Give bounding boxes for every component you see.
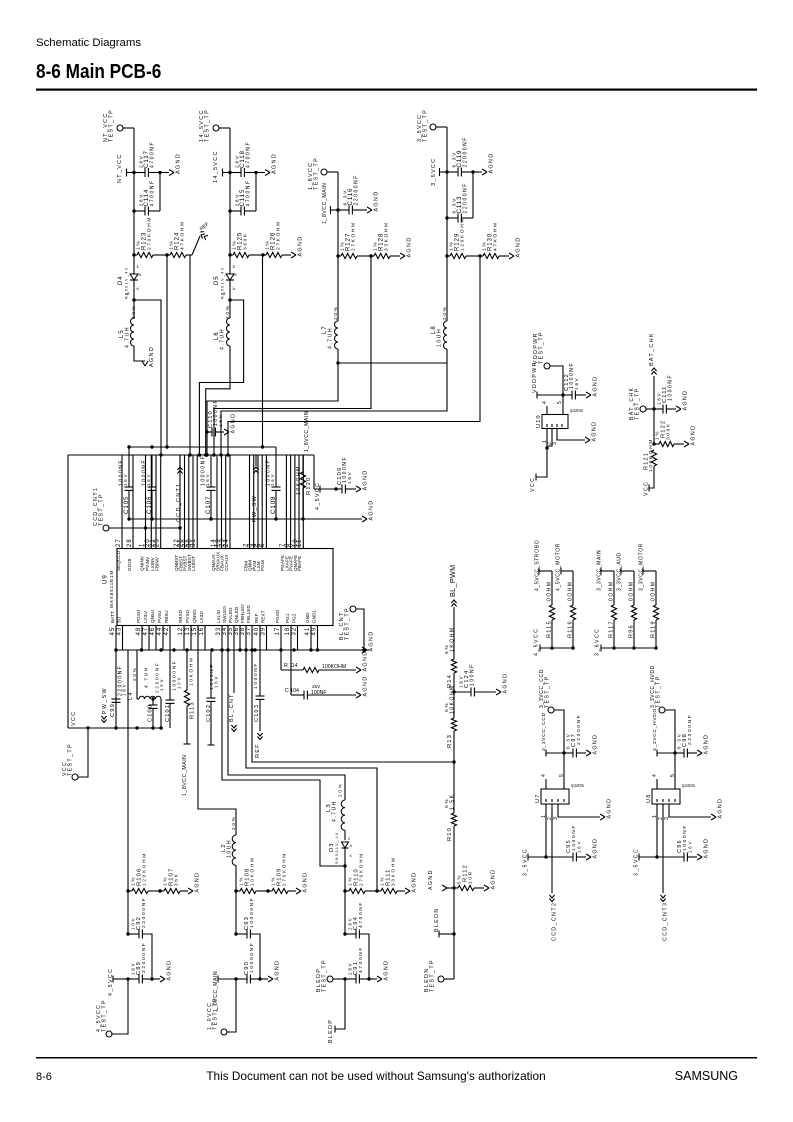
svg-text:BL_PWM: BL_PWM — [448, 565, 457, 597]
svg-text:22000NF: 22000NF — [141, 942, 147, 973]
svg-text:AGND: AGND — [194, 872, 200, 893]
svg-text:16V: 16V — [270, 473, 275, 486]
svg-text:1_8VCC_MAIN: 1_8VCC_MAIN — [322, 183, 328, 225]
svg-text:28V: 28V — [348, 917, 353, 930]
svg-text:10000NF: 10000NF — [249, 897, 255, 928]
svg-text:AGND: AGND — [428, 869, 434, 890]
svg-text:AGND: AGND — [362, 470, 368, 491]
svg-text:RBSD: RBSD — [178, 609, 183, 623]
svg-text:BAT_CHK: BAT_CHK — [649, 332, 655, 366]
svg-text:120KOHM: 120KOHM — [460, 217, 466, 251]
svg-text:AGND: AGND — [175, 153, 181, 174]
svg-text:TEST_TP: TEST_TP — [344, 607, 350, 640]
svg-text:R10: R10 — [447, 827, 453, 841]
svg-text:4.7UH: 4.7UH — [124, 326, 130, 348]
svg-text:D4: D4 — [118, 275, 124, 285]
svg-text:32: 32 — [291, 627, 297, 636]
svg-text:1%: 1% — [380, 876, 385, 886]
svg-text:PVSD: PVSD — [185, 610, 190, 623]
svg-text:TEST_TP: TEST_TP — [204, 109, 210, 142]
svg-text:20%: 20% — [231, 815, 236, 830]
svg-text:TEST_TP: TEST_TP — [655, 675, 661, 708]
svg-text:22000NF: 22000NF — [576, 714, 582, 745]
svg-text:22000NF: 22000NF — [462, 136, 468, 167]
svg-text:41: 41 — [305, 627, 311, 636]
svg-text:BLEDP: BLEDP — [328, 1019, 334, 1043]
svg-text:10UH: 10UH — [226, 839, 232, 858]
svg-text:TEST_TP: TEST_TP — [634, 387, 640, 420]
svg-text:270KOHM: 270KOHM — [359, 852, 364, 886]
svg-text:1%: 1% — [655, 430, 660, 440]
svg-text:AGND: AGND — [591, 421, 597, 442]
svg-text:4_5VCC: 4_5VCC — [533, 628, 539, 656]
svg-text:3_3VCC_MAIN: 3_3VCC_MAIN — [596, 550, 602, 591]
svg-text:300K: 300K — [666, 422, 672, 440]
svg-text:16V: 16V — [131, 962, 136, 975]
svg-text:360K: 360K — [243, 232, 249, 250]
svg-text:4700NF: 4700NF — [245, 141, 251, 168]
svg-text:AGND: AGND — [682, 390, 688, 411]
svg-text:1_8VCC_MAIN: 1_8VCC_MAIN — [304, 411, 310, 452]
svg-text:GND1: GND1 — [311, 609, 316, 623]
svg-text:AGND: AGND — [411, 872, 417, 893]
svg-text:16V: 16V — [347, 471, 352, 484]
svg-text:TEST_TP: TEST_TP — [422, 109, 428, 142]
svg-text:27: 27 — [116, 538, 122, 547]
svg-text:AGND: AGND — [362, 651, 368, 672]
svg-text:QNLED: QNLED — [234, 606, 239, 623]
svg-text:R112: R112 — [463, 864, 469, 882]
svg-text:AGND: AGND — [302, 872, 308, 893]
svg-text:AGND: AGND — [271, 153, 277, 174]
svg-text:REXT: REXT — [260, 610, 265, 623]
svg-text:22000NF: 22000NF — [462, 182, 468, 213]
svg-text:0OHM: 0OHM — [567, 580, 573, 601]
svg-text:11: 11 — [297, 539, 303, 547]
svg-text:5: 5 — [557, 400, 563, 404]
svg-text:24: 24 — [224, 538, 230, 547]
svg-text:AGND: AGND — [368, 500, 374, 521]
svg-text:16V: 16V — [688, 840, 693, 853]
svg-text:TEST_TP: TEST_TP — [98, 493, 104, 526]
svg-text:AGND: AGND — [502, 673, 508, 694]
svg-text:TEST_TP: TEST_TP — [538, 331, 544, 364]
svg-text:1_8VCC_MAIN: 1_8VCC_MAIN — [182, 755, 188, 797]
svg-text:C103: C103 — [254, 704, 260, 722]
svg-text:R127: R127 — [346, 233, 352, 251]
svg-text:PV5U: PV5U — [157, 611, 162, 623]
svg-text:PG1: PG1 — [285, 613, 290, 623]
svg-text:AGND: AGND — [383, 960, 389, 981]
svg-text:37: 37 — [246, 627, 252, 636]
svg-text:3: 3 — [552, 441, 558, 445]
svg-text:U10: U10 — [536, 414, 542, 428]
svg-text:C99: C99 — [110, 703, 116, 717]
svg-text:16: 16 — [199, 627, 205, 636]
svg-text:10KOHM: 10KOHM — [250, 856, 255, 886]
svg-text:3_5VCC: 3_5VCC — [633, 848, 639, 876]
svg-text:4700NF: 4700NF — [245, 179, 251, 206]
svg-text:3_3VCC_CCD: 3_3VCC_CCD — [541, 712, 547, 751]
svg-text:AGND: AGND — [717, 798, 723, 819]
svg-text:AGND: AGND — [149, 346, 155, 367]
svg-text:16V: 16V — [122, 683, 127, 696]
svg-text:AGND: AGND — [230, 413, 236, 434]
svg-text:VCC: VCC — [643, 481, 649, 496]
svg-text:AGND: AGND — [490, 869, 496, 890]
svg-text:3_6VCC: 3_6VCC — [594, 628, 600, 656]
svg-text:NT_VCC: NT_VCC — [117, 153, 123, 183]
svg-text:4_5VCC: 4_5VCC — [315, 482, 321, 510]
svg-text:10KOHM: 10KOHM — [450, 684, 456, 714]
svg-text:100KOHM: 100KOHM — [322, 664, 346, 670]
svg-text:22000NF: 22000NF — [687, 714, 693, 745]
svg-text:44: 44 — [157, 627, 163, 636]
svg-text:22000NF: 22000NF — [353, 174, 359, 205]
svg-text:100KOHM: 100KOHM — [648, 438, 654, 472]
svg-text:FBAFE: FBAFE — [297, 556, 302, 571]
svg-text:QNSD: QNSD — [192, 609, 197, 623]
svg-text:20%: 20% — [442, 305, 448, 320]
svg-text:CCD_CNT1: CCD_CNT1 — [176, 482, 182, 522]
svg-text:rp103n: rp103n — [682, 783, 696, 788]
svg-text:6.3V: 6.3V — [677, 732, 682, 749]
svg-text:16V: 16V — [123, 473, 128, 486]
svg-text:C89: C89 — [136, 961, 142, 975]
svg-text:10V: 10V — [159, 678, 164, 691]
svg-text:PGM: PGM — [260, 560, 265, 571]
svg-text:R128: R128 — [379, 233, 385, 251]
svg-text:5%: 5% — [457, 874, 462, 884]
svg-text:1%: 1% — [131, 876, 136, 886]
svg-text:4: 4 — [541, 773, 547, 777]
svg-text:25V: 25V — [312, 684, 321, 689]
svg-text:47KOHM: 47KOHM — [180, 220, 186, 250]
svg-text:CCD_CNT3: CCD_CNT3 — [662, 902, 668, 941]
svg-text:BL_CNT: BL_CNT — [229, 693, 235, 722]
svg-text:TEST_TP: TEST_TP — [321, 959, 327, 992]
svg-text:47: 47 — [143, 627, 149, 636]
svg-text:SWLED: SWLED — [222, 606, 227, 623]
svg-text:This Document can not be used: This Document can not be used without Sa… — [206, 1069, 545, 1083]
svg-text:10V: 10V — [131, 917, 136, 930]
svg-text:PGSU: PGSU — [136, 610, 141, 623]
svg-text:GND: GND — [305, 612, 310, 623]
svg-text:C97: C97 — [571, 733, 577, 747]
svg-text:LX3U: LX3U — [143, 611, 148, 623]
svg-text:SAMSUNG: SAMSUNG — [675, 1069, 738, 1083]
svg-text:LX3D: LX3D — [199, 611, 204, 623]
svg-text:0OHM: 0OHM — [628, 580, 634, 601]
svg-text:FBINV: FBINV — [155, 556, 160, 571]
svg-text:CCAUX: CCAUX — [224, 554, 229, 571]
svg-text:AGND: AGND — [297, 236, 303, 257]
svg-text:3_3VCC_MOTOR: 3_3VCC_MOTOR — [638, 543, 644, 591]
svg-text:AGND: AGND — [515, 237, 521, 258]
svg-text:270KOHM: 270KOHM — [282, 852, 287, 886]
svg-text:49: 49 — [311, 627, 317, 636]
svg-text:C94: C94 — [353, 916, 359, 930]
svg-text:14_5VCC: 14_5VCC — [213, 150, 219, 183]
svg-text:20%: 20% — [333, 305, 339, 320]
svg-text:L4: L4 — [128, 691, 134, 700]
svg-text:42: 42 — [164, 627, 170, 636]
svg-text:TEST_TP: TEST_TP — [67, 743, 73, 776]
svg-text:C93: C93 — [244, 916, 250, 930]
svg-text:0OHM: 0OHM — [608, 580, 614, 601]
svg-text:46: 46 — [150, 627, 156, 636]
svg-text:20%: 20% — [131, 304, 137, 319]
svg-text:4.7UH: 4.7UH — [219, 328, 225, 350]
svg-text:VCC: VCC — [71, 711, 77, 726]
svg-text:10UH: 10UH — [436, 328, 442, 347]
svg-text:R123: R123 — [142, 232, 148, 250]
svg-text:8-6: 8-6 — [36, 1071, 52, 1083]
svg-text:AGND: AGND — [362, 676, 368, 697]
svg-text:120KOHM: 120KOHM — [142, 852, 147, 886]
svg-text:LXLID: LXLID — [216, 609, 221, 623]
svg-text:VCC: VCC — [530, 477, 536, 492]
svg-text:1KOHM: 1KOHM — [450, 626, 456, 652]
svg-text:100NF: 100NF — [469, 663, 475, 686]
svg-text:TEST_TP: TEST_TP — [429, 959, 435, 992]
svg-text:PVLED: PVLED — [228, 607, 233, 623]
svg-text:1%: 1% — [239, 876, 244, 886]
svg-text:C 104: C 104 — [285, 688, 299, 694]
svg-text:QNINV: QNINV — [139, 555, 144, 571]
svg-text:C91: C91 — [353, 961, 359, 975]
svg-text:270KOHM: 270KOHM — [147, 216, 153, 250]
svg-text:16V: 16V — [205, 473, 210, 486]
svg-text:20%: 20% — [132, 666, 137, 681]
svg-text:VDDPWR: VDDPWR — [532, 361, 538, 393]
svg-text:28: 28 — [127, 538, 133, 547]
svg-text:U8: U8 — [646, 793, 652, 803]
svg-text:16V: 16V — [459, 675, 464, 688]
svg-text:10KOHM: 10KOHM — [189, 656, 195, 686]
svg-text:AGND: AGND — [166, 960, 172, 981]
svg-text:10R: 10R — [468, 870, 474, 884]
svg-text:4_5VCC_MOTOR: 4_5VCC_MOTOR — [555, 543, 561, 591]
svg-text:AGND: AGND — [606, 798, 612, 819]
svg-text:PGSD: PGSD — [275, 609, 280, 623]
svg-text:3_5VCC: 3_5VCC — [431, 158, 437, 186]
svg-text:R126: R126 — [271, 232, 277, 250]
svg-text:AGND: AGND — [368, 631, 374, 652]
svg-text:16V: 16V — [577, 840, 582, 853]
svg-text:RB501V_40: RB501V_40 — [334, 832, 339, 864]
svg-text:REF: REF — [254, 613, 259, 623]
svg-text:1%: 1% — [348, 876, 353, 886]
svg-text:16V: 16V — [574, 377, 579, 390]
svg-text:13: 13 — [185, 627, 191, 636]
svg-text:31: 31 — [191, 538, 197, 547]
svg-text:rp103n: rp103n — [571, 783, 585, 788]
svg-text:PW_SW: PW_SW — [252, 495, 258, 522]
svg-text:27KOHM: 27KOHM — [351, 221, 357, 251]
svg-text:AGND: AGND — [274, 960, 280, 981]
svg-text:1%: 1% — [271, 876, 276, 886]
svg-text:25: 25 — [154, 538, 160, 547]
svg-text:TEST_TP: TEST_TP — [544, 675, 550, 708]
svg-text:15: 15 — [192, 627, 198, 636]
svg-text:10V: 10V — [176, 676, 181, 689]
svg-text:4.7UH: 4.7UH — [327, 327, 333, 349]
svg-text:C96: C96 — [677, 839, 683, 853]
svg-text:28V: 28V — [348, 962, 353, 975]
svg-text:3U: 3U — [116, 617, 121, 623]
svg-text:17: 17 — [275, 627, 281, 636]
svg-text:4700NF: 4700NF — [149, 141, 155, 168]
svg-text:AGND: AGND — [703, 734, 709, 755]
svg-text:AGND: AGND — [592, 734, 598, 755]
svg-text:AGND: AGND — [690, 425, 696, 446]
svg-text:48: 48 — [136, 627, 142, 636]
svg-text:C90: C90 — [244, 961, 250, 975]
svg-text:4_5VCC_STROBO: 4_5VCC_STROBO — [534, 540, 540, 591]
svg-text:PW_SW: PW_SW — [102, 687, 108, 714]
svg-text:6: 6 — [260, 543, 266, 547]
svg-text:4700NF: 4700NF — [358, 946, 364, 973]
svg-text:BATT: BATT — [110, 611, 115, 623]
svg-text:1%: 1% — [163, 876, 168, 886]
svg-text:3_5VCC: 3_5VCC — [522, 848, 528, 876]
svg-text:1.5K: 1.5K — [450, 794, 456, 810]
svg-text:AGND: AGND — [592, 838, 598, 859]
svg-text:0OHM: 0OHM — [650, 580, 656, 601]
svg-text:C105: C105 — [123, 496, 130, 514]
svg-text:LXBST: LXBST — [191, 556, 196, 571]
svg-text:AGND: AGND — [488, 153, 494, 174]
svg-text:18: 18 — [285, 627, 291, 636]
svg-text:CCD_CNT2: CCD_CNT2 — [551, 902, 557, 941]
svg-text:27KOHM: 27KOHM — [276, 220, 282, 250]
svg-text:43: 43 — [116, 627, 122, 636]
svg-text:R130: R130 — [488, 233, 494, 251]
svg-text:R124: R124 — [175, 232, 181, 250]
svg-text:4: 4 — [652, 773, 658, 777]
svg-text:16V: 16V — [218, 414, 223, 427]
svg-text:C102: C102 — [206, 704, 212, 722]
svg-text:33KOHM: 33KOHM — [384, 221, 390, 251]
svg-text:C98: C98 — [682, 733, 688, 747]
svg-text:TEST_TP: TEST_TP — [101, 999, 107, 1032]
svg-text:TEST_TP: TEST_TP — [313, 157, 319, 190]
svg-text:PG2: PG2 — [291, 613, 296, 623]
svg-text:R125: R125 — [238, 232, 244, 250]
svg-text:QN5U: QN5U — [150, 610, 155, 623]
svg-text:AGND: AGND — [406, 237, 412, 258]
svg-text:16V: 16V — [146, 473, 151, 486]
svg-text:R122: R122 — [661, 420, 667, 438]
svg-text:4.7UH: 4.7UH — [144, 666, 150, 688]
svg-text:22000NF: 22000NF — [141, 897, 147, 928]
svg-text:4_5VCC: 4_5VCC — [108, 968, 114, 996]
svg-text:36K: 36K — [174, 873, 179, 886]
svg-text:3_3VCC_HVDO: 3_3VCC_HVDO — [652, 708, 658, 751]
svg-text:AGND: AGND — [592, 376, 598, 397]
svg-text:8-6 Main PCB-6: 8-6 Main PCB-6 — [36, 61, 161, 84]
svg-text:0OHM: 0OHM — [546, 580, 552, 601]
svg-text:6.3V: 6.3V — [566, 732, 571, 749]
svg-text:4: 4 — [542, 400, 548, 404]
svg-text:TEST_TP: TEST_TP — [108, 109, 114, 142]
svg-text:40: 40 — [254, 627, 260, 636]
svg-text:33KOHM: 33KOHM — [391, 856, 396, 886]
svg-text:16V: 16V — [657, 392, 662, 405]
svg-text:4700NF: 4700NF — [149, 179, 155, 206]
svg-text:rp103n: rp103n — [570, 408, 584, 413]
svg-text:C106: C106 — [146, 496, 153, 514]
svg-text:C107: C107 — [205, 496, 212, 514]
svg-text:20%: 20% — [225, 304, 231, 319]
svg-text:AGND: AGND — [703, 838, 709, 859]
svg-text:10000NF: 10000NF — [249, 942, 255, 973]
svg-text:AGND: AGND — [373, 191, 379, 212]
svg-text:20%: 20% — [338, 782, 343, 797]
svg-text:12: 12 — [178, 627, 184, 636]
svg-text:R129: R129 — [455, 233, 461, 251]
svg-text:MAX8511E1M: MAX8511E1M — [109, 570, 115, 608]
svg-text:C100: C100 — [147, 704, 153, 722]
svg-text:3_3VCC_AUD: 3_3VCC_AUD — [616, 552, 622, 591]
svg-text:R113: R113 — [189, 701, 195, 719]
svg-text:C95: C95 — [566, 839, 572, 853]
svg-text:U9: U9 — [102, 574, 109, 584]
svg-text:C92: C92 — [136, 916, 142, 930]
svg-text:FBHLED: FBHLED — [240, 604, 245, 623]
svg-text:SEQCCD: SEQCCD — [116, 550, 121, 571]
svg-text:D5: D5 — [214, 275, 220, 285]
svg-text:BLEDN: BLEDN — [434, 907, 440, 932]
svg-text:1000NF: 1000NF — [253, 662, 259, 689]
svg-text:4.7UH: 4.7UH — [331, 800, 337, 822]
svg-text:45: 45 — [110, 627, 116, 636]
svg-text:R13: R13 — [447, 734, 453, 748]
svg-text:U7: U7 — [535, 793, 541, 803]
svg-text:5: 5 — [670, 773, 676, 777]
svg-text:RB5U: RB5U — [164, 610, 169, 623]
svg-text:1000NF: 1000NF — [667, 374, 673, 401]
svg-text:47KOHM: 47KOHM — [493, 221, 499, 251]
svg-text:4700NF: 4700NF — [358, 901, 364, 928]
svg-text:R120: R120 — [306, 477, 312, 495]
svg-text:39: 39 — [260, 627, 266, 636]
svg-text:C108: C108 — [270, 496, 277, 514]
svg-text:FBLLED: FBLLED — [246, 604, 251, 623]
svg-text:16V: 16V — [213, 675, 218, 688]
svg-text:C101: C101 — [165, 704, 171, 722]
svg-text:REF: REF — [255, 743, 261, 758]
svg-text:TEST_TP: TEST_TP — [212, 997, 218, 1030]
svg-text:GD28: GD28 — [127, 558, 132, 571]
svg-text:Schematic Diagrams: Schematic Diagrams — [36, 37, 141, 49]
svg-text:5: 5 — [559, 773, 565, 777]
